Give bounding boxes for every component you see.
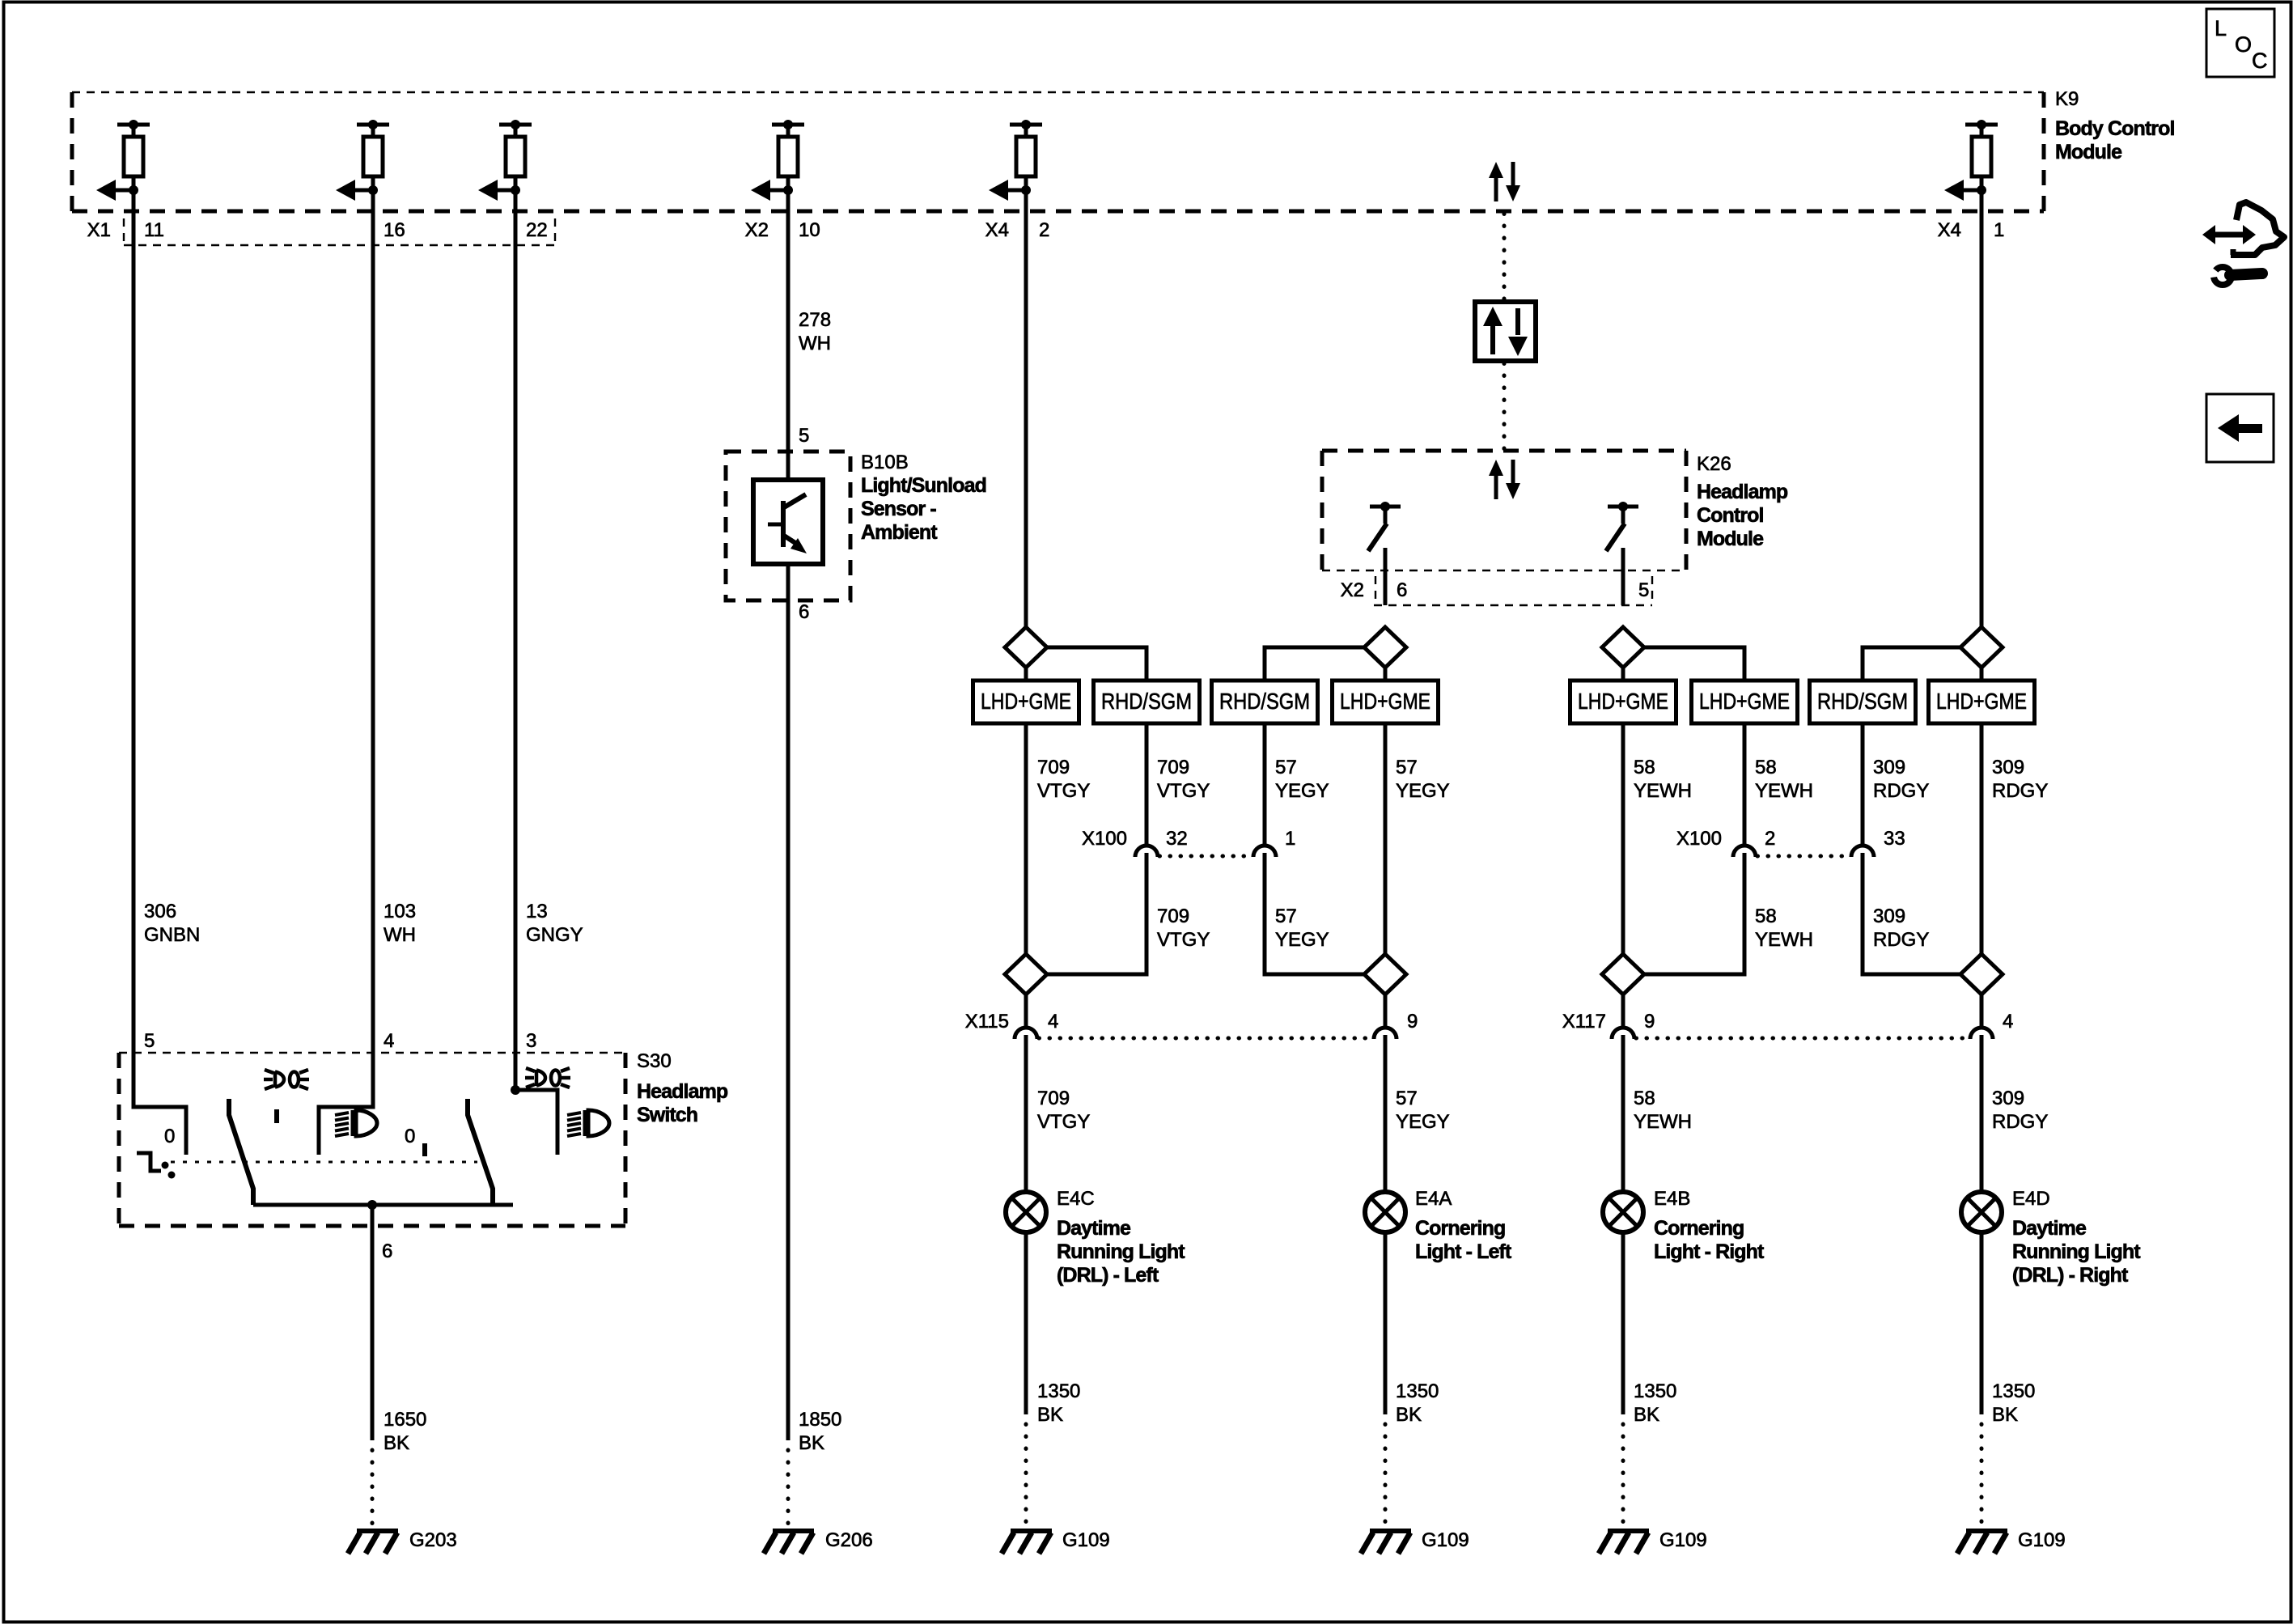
svg-text:Module: Module [2055,141,2122,163]
svg-text:Sensor -: Sensor - [861,498,936,520]
svg-text:9: 9 [1644,1011,1655,1032]
svg-text:VTGY: VTGY [1037,780,1090,802]
parking lamp icon [525,1068,570,1088]
svg-text:Control: Control [1697,504,1764,527]
svg-text:2: 2 [1765,828,1775,850]
wire 58 YEWH branch upper [1743,723,1747,846]
svg-text:X2: X2 [1341,579,1364,601]
wire S7 to X117 [1621,994,1625,1028]
svg-text:33: 33 [1884,828,1905,850]
wire X115 to E4C [1024,1035,1028,1192]
svg-text:X100: X100 [1676,828,1722,850]
wire S1 into option box [1024,668,1028,681]
svg-text:LHD+GME: LHD+GME [981,689,1071,714]
svg-text:709: 709 [1157,905,1189,927]
wire diamond S3 to LHD+GME branch [1644,647,1744,681]
S30 section3 wire from pin 3 [515,1053,557,1155]
page navigation arrow box [2206,394,2274,462]
svg-text:X117: X117 [1562,1011,1606,1032]
wire S4 into option box [1980,668,1984,681]
LOC reference box [2206,9,2274,77]
svg-text:57: 57 [1396,1088,1418,1109]
svg-text:G203: G203 [409,1529,457,1551]
junction dot bus to pin 6 [367,1200,377,1210]
wire S8 to X117 [1980,994,1984,1028]
svg-text:YEGY: YEGY [1275,780,1329,802]
S30 movable contact arm 2 [468,1099,493,1205]
DRL position tick [274,1109,279,1123]
ground G109 (E4D) [1957,1531,2007,1554]
svg-text:1350: 1350 [1992,1380,2035,1402]
serial data dotted link lower [1503,363,1507,450]
svg-text:X1: X1 [87,219,111,241]
svg-text:13: 13 [526,901,548,922]
svg-text:22: 22 [526,219,548,241]
phototransistor symbol [768,494,807,553]
svg-text:GNBN: GNBN [144,924,200,946]
BCM output driver with arrow, pin X1:16 [336,120,389,211]
svg-text:(DRL) - Left: (DRL) - Left [1057,1264,1159,1287]
BCM output driver with arrow, pin X1:22 [478,120,532,211]
svg-text:K9: K9 [2055,88,2079,110]
svg-text:E4D: E4D [2012,1188,2050,1210]
svg-text:YEWH: YEWH [1634,1111,1692,1133]
svg-text:Headlamp: Headlamp [1697,481,1788,503]
wire 309 RDGY branch upper [1861,723,1865,846]
wire diamond S4 to RHD/SGM branch [1863,647,1960,681]
sensor B10B inner box [753,480,823,564]
X100 terminal 32 bump [1135,846,1158,857]
option box LHD+GME (709 main) [973,681,1079,723]
svg-text:E4B: E4B [1654,1188,1690,1210]
wire diamond S2 to RHD/SGM branch [1265,647,1364,681]
X115 dotted pairing [1039,1037,1374,1041]
S30 auto position symbol [137,1153,176,1179]
serial data dotted link upper [1503,214,1507,302]
svg-text:Running Light: Running Light [1057,1240,1185,1263]
svg-text:K26: K26 [1697,453,1731,475]
svg-text:1650: 1650 [384,1409,426,1431]
svg-text:1350: 1350 [1396,1380,1439,1402]
svg-text:309: 309 [1992,757,2024,778]
svg-text:1350: 1350 [1037,1380,1080,1402]
svg-text:57: 57 [1396,757,1418,778]
svg-text:X2: X2 [745,219,769,241]
splice diamond S1 (left DRL feed) [1005,627,1047,668]
svg-text:4: 4 [384,1030,394,1052]
svg-text:4: 4 [2003,1011,2013,1032]
lamp E4A [1365,1192,1405,1232]
svg-text:309: 309 [1873,905,1905,927]
svg-text:5: 5 [799,425,809,447]
wire X117 to E4D [1980,1035,1984,1192]
svg-text:709: 709 [1037,1088,1070,1109]
wire X117 to E4B [1621,1035,1625,1192]
wire E4B to ground [1621,1232,1625,1414]
wire 309 RDGY main [1980,723,1984,954]
svg-text:WH: WH [384,924,416,946]
svg-text:S30: S30 [637,1050,672,1072]
wire 13 GNGY from X1:22 to S30:3 [514,211,518,1090]
X100 terminal 1 bump [1253,846,1276,857]
S30 position tick section2 [422,1143,427,1156]
svg-text:58: 58 [1634,757,1655,778]
svg-text:YEGY: YEGY [1396,780,1450,802]
wire 58 YEWH main [1621,723,1625,954]
wire 278 WH from X2:10 to B10B:5 [786,211,790,480]
ground G109 (E4B) [1599,1531,1649,1554]
svg-text:C: C [2252,49,2268,73]
svg-text:103: 103 [384,901,416,922]
svg-text:LHD+GME: LHD+GME [1340,689,1430,714]
svg-text:(DRL) - Right: (DRL) - Right [2012,1264,2129,1287]
svg-text:57: 57 [1275,905,1297,927]
svg-text:X4: X4 [1938,219,1961,241]
svg-text:9: 9 [1407,1011,1418,1032]
svg-text:G109: G109 [1659,1529,1707,1551]
splice diamond S2 (cornering left feed) [1364,627,1406,668]
X100 dotted pairing right [1757,854,1851,859]
svg-text:10: 10 [799,219,820,241]
wire from X4:1 to splice diamond [1980,211,1984,629]
svg-text:LHD+GME: LHD+GME [1936,689,2027,714]
svg-text:GNGY: GNGY [526,924,583,946]
K26 switch pin 5 [1606,502,1638,605]
svg-text:309: 309 [1873,757,1905,778]
wire 57 YEGY main [1384,723,1388,954]
headlamp icon section2 [335,1110,377,1136]
X100 dotted pairing left [1159,854,1253,859]
svg-text:58: 58 [1755,757,1777,778]
splice diamond S3 (cornering right feed) [1602,627,1644,668]
ground G109 (E4C) [1002,1531,1052,1554]
svg-text:G206: G206 [825,1529,873,1551]
svg-text:BK: BK [384,1432,409,1454]
svg-text:2: 2 [1039,219,1049,241]
DRL icon [264,1070,309,1089]
splice diamond S4 (right DRL feed) [1960,627,2003,668]
svg-text:709: 709 [1037,757,1070,778]
module K26 box (Headlamp Control Module) [1322,451,1686,570]
svg-text:5: 5 [144,1030,155,1052]
K26 switch pin X2:6 [1368,502,1401,605]
svg-text:RDGY: RDGY [1992,1111,2048,1133]
svg-text:RDGY: RDGY [1992,780,2048,802]
svg-text:309: 309 [1992,1088,2024,1109]
svg-text:RDGY: RDGY [1873,929,1929,951]
X100 terminal 33 bump [1851,846,1874,857]
svg-text:1: 1 [1285,828,1295,850]
wire 57 YEGY branch upper [1263,723,1267,846]
svg-text:58: 58 [1755,905,1777,927]
svg-text:1350: 1350 [1634,1380,1676,1402]
svg-text:57: 57 [1275,757,1297,778]
svg-text:VTGY: VTGY [1037,1111,1090,1133]
ground G203 [348,1531,398,1554]
svg-text:11: 11 [144,219,164,241]
wire S6 to X115 [1384,994,1388,1028]
svg-text:0: 0 [405,1126,415,1147]
svg-text:278: 278 [799,309,831,331]
svg-text:BK: BK [799,1432,824,1454]
connector X1 dashed underline [124,244,555,246]
lamp E4D [1961,1192,2002,1232]
wire 709 VTGY branch lower [1047,853,1146,974]
svg-text:RHD/SGM: RHD/SGM [1817,689,1908,714]
wire from X4:2 to splice diamond [1024,211,1028,629]
svg-text:G109: G109 [1062,1529,1110,1551]
svg-text:Ambient: Ambient [861,521,938,544]
hotlink icon (arrow + connector + wrench) [2202,202,2284,285]
svg-text:VTGY: VTGY [1157,780,1210,802]
svg-text:1850: 1850 [799,1409,841,1431]
ground G206 [764,1531,814,1554]
X115 terminal 9 bump [1374,1028,1397,1039]
svg-text:RDGY: RDGY [1873,780,1929,802]
svg-text:YEWH: YEWH [1755,780,1813,802]
svg-text:Headlamp: Headlamp [637,1080,728,1103]
svg-text:Light - Left: Light - Left [1415,1240,1512,1263]
BCM output driver with arrow, pin X4:2 [989,120,1042,211]
svg-text:O: O [2235,32,2252,57]
wire 709 VTGY main (box to lower diamond) [1024,723,1028,954]
BCM output driver with arrow, pin X2:10 [751,120,804,211]
svg-text:306: 306 [144,901,176,922]
wire 309 RDGY branch lower [1863,853,1960,974]
svg-text:X4: X4 [985,219,1009,241]
svg-text:5: 5 [1638,579,1649,601]
svg-text:BK: BK [1992,1404,2018,1426]
splice diamond S7 [1602,954,1644,994]
svg-text:Daytime: Daytime [2012,1217,2087,1240]
sensor B10B dashed box [726,452,850,600]
svg-text:WH: WH [799,333,831,354]
S30 mechanical link dotted [171,1161,477,1164]
svg-text:16: 16 [384,219,405,241]
svg-text:YEGY: YEGY [1275,929,1329,951]
option box LHD+GME (58 branch) [1692,681,1798,723]
wire 57 YEGY branch lower [1265,853,1364,974]
svg-text:L: L [2215,16,2227,40]
svg-text:BK: BK [1396,1404,1422,1426]
serial data gateway box with arrows [1475,302,1536,361]
svg-text:Running Light: Running Light [2012,1240,2141,1263]
svg-text:6: 6 [382,1240,392,1262]
svg-text:YEWH: YEWH [1755,929,1813,951]
X115 terminal 4 bump [1015,1028,1037,1039]
S30 common bus [253,1203,513,1207]
svg-text:709: 709 [1157,757,1189,778]
wire S5 to X115 [1024,994,1028,1028]
svg-text:RHD/SGM: RHD/SGM [1219,689,1310,714]
wire S3 into option box [1621,668,1625,681]
svg-text:Light - Right: Light - Right [1654,1240,1765,1263]
svg-text:BK: BK [1037,1404,1063,1426]
svg-text:6: 6 [1397,579,1407,601]
splice diamond S5 [1005,954,1047,994]
wire 58 YEWH branch lower [1644,853,1744,974]
svg-text:E4A: E4A [1415,1188,1452,1210]
svg-text:0: 0 [164,1126,175,1147]
svg-text:Switch: Switch [637,1104,697,1126]
S30 section1 fixed contact from pin 5 [134,1053,186,1155]
option box RHD/SGM (309 branch) [1810,681,1916,723]
svg-text:X100: X100 [1082,828,1127,850]
svg-text:Module: Module [1697,528,1764,550]
svg-text:G109: G109 [2018,1529,2066,1551]
svg-text:1: 1 [1994,219,2004,241]
wire E4C to ground [1024,1232,1028,1414]
wire 1650 BK from S30:6 to G203 [371,1205,375,1440]
svg-text:Cornering: Cornering [1415,1217,1505,1240]
svg-text:4: 4 [1048,1011,1058,1032]
svg-text:LHD+GME: LHD+GME [1699,689,1790,714]
svg-text:E4C: E4C [1057,1188,1095,1210]
option box LHD+GME (309 main) [1929,681,2035,723]
X117 terminal 9 bump [1612,1028,1634,1039]
serial data arrows inside K9 [1489,162,1520,201]
S30 movable contact arm 1 [229,1099,253,1205]
serial data arrows inside K26 [1489,460,1520,499]
X117 terminal 4 bump [1970,1028,1993,1039]
option box LHD+GME (58 main) [1570,681,1676,723]
svg-text:LHD+GME: LHD+GME [1578,689,1668,714]
headlamp icon section3 [567,1110,609,1136]
switch S30 box (Headlamp Switch) [119,1053,625,1226]
X100 terminal 2 bump [1733,846,1756,857]
BCM output driver with arrow, pin X1:11 [96,120,150,211]
svg-text:6: 6 [799,601,809,623]
svg-text:YEGY: YEGY [1396,1111,1450,1133]
svg-text:VTGY: VTGY [1157,929,1210,951]
svg-text:BK: BK [1634,1404,1659,1426]
svg-text:G109: G109 [1422,1529,1469,1551]
wire 1850 BK from B10B:6 toward G206 [786,564,790,1440]
svg-text:Light/Sunload: Light/Sunload [861,474,986,497]
svg-text:RHD/SGM: RHD/SGM [1101,689,1192,714]
option box RHD/SGM (57 branch) [1212,681,1318,723]
wire 306 GNBN from X1:11 to S30:5 [132,211,136,1107]
wire S2 into option box [1384,668,1388,681]
svg-text:32: 32 [1166,828,1188,850]
BCM output driver with arrow, pin X4:1 [1944,120,1998,211]
lamp E4C [1006,1192,1046,1232]
X117 dotted pairing [1636,1037,1971,1041]
svg-text:3: 3 [526,1030,536,1052]
svg-text:Daytime: Daytime [1057,1217,1131,1240]
svg-text:YEWH: YEWH [1634,780,1692,802]
lamp E4B [1603,1192,1643,1232]
module K9 box (Body Control Module, dashed outline) [72,92,2044,211]
wire X115 to E4A [1384,1035,1388,1192]
option box LHD+GME (57 main) [1333,681,1439,723]
wire 709 VTGY branch upper [1145,723,1149,846]
ground G109 (E4A) [1361,1531,1411,1554]
svg-text:Cornering: Cornering [1654,1217,1744,1240]
wire E4D to ground [1980,1232,1984,1414]
option box RHD/SGM (709 branch) [1094,681,1200,723]
wire E4A to ground [1384,1232,1388,1414]
splice diamond S6 [1364,954,1406,994]
wire 103 WH from X1:16 to S30:4 [371,211,375,1107]
svg-text:B10B: B10B [861,452,909,473]
svg-text:X115: X115 [965,1011,1009,1032]
S30 section2 fixed contact from pin 4 [319,1053,373,1155]
svg-text:Body Control: Body Control [2055,117,2175,140]
wire diamond S1 to RHD/SGM branch [1047,647,1146,681]
svg-text:58: 58 [1634,1088,1655,1109]
splice diamond S8 [1960,954,2003,994]
junction dot pin3 [511,1085,520,1095]
